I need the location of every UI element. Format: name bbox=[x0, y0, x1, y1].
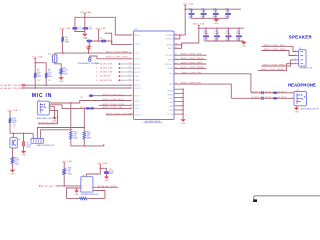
svg-text:18: 18 bbox=[129, 79, 131, 81]
svg-text:MIC2P: MIC2P bbox=[135, 64, 142, 66]
capacitor C11 bbox=[216, 28, 218, 35]
svg-text:C8: C8 bbox=[213, 9, 215, 11]
capacitor C6 bbox=[191, 9, 193, 13]
wire net AZ_NB_MIC_OUT bbox=[93, 186, 118, 188]
svg-text:0402: 0402 bbox=[87, 138, 91, 140]
capacitor C4 bbox=[101, 40, 106, 43]
wire speaker w2 bbox=[261, 51, 296, 56]
capacitor C8 bbox=[215, 9, 217, 13]
svg-text:0402: 0402 bbox=[109, 173, 113, 175]
capacitor C16 bbox=[104, 171, 109, 174]
wire jack pin3 to ground bbox=[50, 107, 54, 117]
wire VCC column (flag to pin) bbox=[184, 6, 186, 35]
svg-text:GND: GND bbox=[214, 23, 219, 25]
resistor R12 bbox=[70, 131, 73, 139]
capacitor C9 bbox=[227, 9, 229, 13]
resistor R16 (series, HP left) bbox=[273, 92, 277, 94]
resistor R13 bbox=[83, 131, 86, 139]
wire net AUDIO_CODEC_DOUT_SPDIF bbox=[106, 114, 130, 116]
ground GND (under C16) bbox=[104, 177, 109, 179]
svg-text:15: 15 bbox=[129, 67, 131, 69]
wire top-left decoupling bus bbox=[75, 17, 132, 35]
wire stem VCC flag to bus bbox=[84, 15, 86, 17]
svg-text:MIC3P: MIC3P bbox=[135, 72, 142, 74]
node junction on DIN wire bbox=[83, 108, 85, 110]
wire AVDD column down to pin net bbox=[182, 28, 199, 43]
svg-text:GND: GND bbox=[169, 102, 174, 104]
svg-text:U2: U2 bbox=[82, 175, 84, 177]
node junction x=179.8 bbox=[179, 34, 181, 36]
svg-text:GND: GND bbox=[294, 111, 299, 113]
svg-text:17: 17 bbox=[129, 75, 131, 77]
ground GND (headphone jack) bbox=[294, 108, 299, 111]
svg-text:1: 1 bbox=[91, 187, 92, 189]
svg-text:0603: 0603 bbox=[236, 39, 240, 41]
svg-text:SDIN: SDIN bbox=[135, 108, 140, 110]
wire VCC amp column bbox=[86, 166, 100, 177]
wire crystal pin to bus bbox=[32, 133, 34, 138]
svg-text:0402: 0402 bbox=[214, 39, 218, 41]
node junction AVDD on bus 2 bbox=[198, 27, 200, 29]
svg-text:0402: 0402 bbox=[64, 74, 68, 76]
svg-text:1%: 1% bbox=[37, 80, 40, 82]
svg-text:0402: 0402 bbox=[48, 76, 52, 78]
svg-text:2: 2 bbox=[82, 188, 83, 190]
svg-text:LRCK: LRCK bbox=[135, 105, 141, 107]
svg-text:2: 2 bbox=[50, 102, 51, 104]
wire speaker w3 bbox=[261, 60, 296, 66]
ground GND (mic jack) bbox=[52, 117, 57, 119]
wire net AUDIO_CODEC_RESET# bbox=[55, 52, 131, 54]
wire R14 to bus bbox=[10, 123, 33, 133]
node junction bus x=13.4 bbox=[13, 132, 15, 134]
svg-text:GND: GND bbox=[169, 98, 174, 100]
svg-text:C3: C3 bbox=[85, 38, 87, 40]
svg-text:1: 1 bbox=[295, 50, 296, 52]
svg-text:C2: C2 bbox=[89, 26, 91, 28]
svg-text:3: 3 bbox=[292, 97, 293, 99]
component D1 (vertical, GPIO net) bbox=[89, 57, 91, 61]
connector J3 (headphone jack) bbox=[294, 92, 307, 106]
svg-text:2.2uF: 2.2uF bbox=[214, 33, 220, 35]
resistor R6 bbox=[60, 68, 63, 74]
svg-text:4: 4 bbox=[295, 62, 296, 64]
wire crystal to bias resistors (upper) bbox=[37, 128, 84, 139]
node junction amp input bbox=[63, 185, 65, 187]
wire pin SPKVDD to VCC column bbox=[174, 34, 185, 36]
ground GND (U2) bbox=[74, 190, 79, 192]
resistor R19 (feedback) bbox=[80, 197, 87, 199]
svg-text:R14: R14 bbox=[12, 118, 15, 120]
capacitor C2 bbox=[83, 27, 88, 30]
svg-text:MIC1N: MIC1N bbox=[135, 88, 142, 90]
svg-text:2: 2 bbox=[295, 54, 296, 56]
svg-text:0402: 0402 bbox=[15, 164, 19, 166]
wire net AUDIO_CODEC_SPKRN bbox=[174, 67, 207, 69]
wire R5 bottom to R6 bbox=[55, 62, 62, 68]
svg-text:0402: 0402 bbox=[226, 39, 230, 41]
svg-text:C9: C9 bbox=[225, 9, 227, 11]
wire C5 to ground bbox=[23, 147, 25, 151]
wire cap row 2 bbox=[87, 41, 132, 44]
connector J1 (speaker) bbox=[299, 50, 306, 66]
svg-text:GND: GND bbox=[181, 123, 186, 125]
wire headphone line 1 bbox=[251, 92, 294, 94]
capacitor C12 bbox=[228, 28, 230, 35]
wire cap bottoms to ground bbox=[75, 30, 85, 34]
resistor R5 (box style) bbox=[53, 55, 57, 62]
svg-text:41: 41 bbox=[175, 83, 177, 85]
wire column to R13 bbox=[83, 108, 85, 131]
node junction x=181.6 bbox=[181, 44, 183, 46]
svg-text:4.7uF: 4.7uF bbox=[26, 145, 32, 147]
wire net AUDIO_CODEC_HPL (to headphone) bbox=[174, 74, 251, 93]
svg-text:2.2uF: 2.2uF bbox=[189, 11, 195, 13]
power flag AVDD stem bbox=[197, 25, 200, 27]
capacitor C10 bbox=[205, 28, 207, 35]
svg-text:R6: R6 bbox=[64, 67, 66, 69]
svg-text:3: 3 bbox=[82, 179, 83, 181]
svg-text:SPLN: SPLN bbox=[168, 59, 174, 61]
wire capacitor bus 1 (bottom) bbox=[192, 17, 229, 19]
wire ground bus right of U1 bbox=[174, 88, 183, 90]
transistor Q1 bbox=[10, 138, 17, 148]
wire J1 pin stubs bbox=[297, 52, 299, 64]
ground GND (cap bank 1) bbox=[215, 17, 217, 20]
node junction x=84.3 y=127.5 bbox=[83, 127, 85, 129]
svg-text:48: 48 bbox=[175, 67, 177, 69]
svg-text:LINE: LINE bbox=[135, 76, 140, 78]
capacitor C14 (series, HP left) bbox=[262, 91, 264, 94]
node junction R8/line1 bbox=[45, 84, 47, 86]
svg-text:5%: 5% bbox=[87, 136, 90, 138]
capacitor C5 (red body) bbox=[23, 133, 25, 141]
off-page connector (line 1) bbox=[21, 84, 25, 86]
svg-text:GND: GND bbox=[52, 121, 57, 123]
svg-text:100K: 100K bbox=[12, 120, 17, 122]
svg-text:C13: C13 bbox=[236, 31, 239, 33]
svg-text:J3: J3 bbox=[297, 90, 299, 92]
wire flag stem bbox=[34, 60, 36, 63]
svg-text:R8: R8 bbox=[48, 70, 50, 72]
node junction on BCLK wire bbox=[70, 102, 72, 104]
wire net AZ_NB_MIC_CON_P bbox=[25, 84, 130, 86]
wire J3 to ground bbox=[296, 106, 298, 108]
capacitor C15 (series, HP right) bbox=[262, 97, 264, 100]
wire branch to C16 bbox=[100, 168, 106, 171]
wire amp input net bbox=[56, 185, 81, 187]
capacitor C13 bbox=[238, 28, 240, 35]
svg-text:0402: 0402 bbox=[12, 122, 16, 124]
svg-text:C10: C10 bbox=[203, 31, 206, 33]
svg-text:GND: GND bbox=[169, 110, 174, 112]
svg-text:GND: GND bbox=[21, 155, 26, 157]
node junction amp VCC bbox=[99, 167, 101, 169]
resistor R15 bbox=[11, 157, 14, 164]
ground GND (under R15) bbox=[10, 170, 15, 173]
wire flag to R14 bbox=[9, 113, 11, 118]
resistor R8 bbox=[45, 73, 48, 78]
svg-text:GND: GND bbox=[10, 174, 15, 176]
wire net AZ_NB_MIC_CON_N bbox=[23, 87, 130, 89]
op-amp U1 (audio codec ALC5621) bbox=[134, 31, 175, 120]
svg-text:0402: 0402 bbox=[65, 41, 69, 43]
resistor R17 (series, HP right) bbox=[273, 98, 277, 100]
wire flag stem to RESET net bbox=[88, 50, 90, 53]
wire net AUDIO_CODEC_BCLK (from mic jack) bbox=[50, 101, 130, 104]
svg-text:HEADPHONE: HEADPHONE bbox=[288, 83, 316, 88]
wire R15 to ground bbox=[12, 164, 14, 170]
svg-text:0402: 0402 bbox=[74, 138, 78, 140]
wire step to pin SPKVD2 bbox=[174, 35, 180, 39]
node junction mic bias bbox=[34, 62, 36, 64]
op-amp U2 (mic buffer) bbox=[81, 177, 93, 192]
wire small jog segment bbox=[105, 33, 112, 44]
svg-text:40: 40 bbox=[175, 72, 177, 74]
wire jack pin stubs bbox=[49, 103, 50, 110]
wire net AUDIO_CODEC_HPR (to headphone) bbox=[174, 84, 231, 98]
svg-text:2.2uF: 2.2uF bbox=[201, 11, 207, 13]
svg-text:45: 45 bbox=[175, 54, 177, 56]
pin leads U1 left edge bbox=[131, 34, 133, 36]
svg-text:R18: R18 bbox=[68, 167, 71, 169]
wire cap C1 stub bbox=[74, 17, 76, 27]
svg-text:0402: 0402 bbox=[68, 174, 72, 176]
svg-text:BCLK: BCLK bbox=[135, 100, 141, 102]
svg-text:C6: C6 bbox=[189, 9, 191, 11]
wire R5 top to RESET net bbox=[54, 53, 56, 55]
wire resistor bottoms bus bbox=[71, 139, 104, 146]
wire net AUDIO_CODEC_LRCLK bbox=[99, 104, 130, 106]
svg-text:SPLOUT: SPLOUT bbox=[165, 55, 173, 57]
svg-text:C16: C16 bbox=[109, 169, 112, 171]
wire C16 to ground bbox=[106, 174, 108, 177]
svg-text:C1: C1 bbox=[78, 26, 80, 28]
svg-text:5%: 5% bbox=[48, 74, 51, 76]
wire R8 column bbox=[45, 63, 47, 73]
wire capacitor bus 1 (top) bbox=[185, 8, 241, 10]
wire capacitor bus 2 (top) bbox=[199, 27, 244, 29]
node junction RESET x=63 bbox=[62, 52, 64, 54]
svg-text:2.2uF: 2.2uF bbox=[109, 171, 115, 173]
svg-text:0402: 0402 bbox=[37, 76, 41, 78]
svg-text:SPKVDD: SPKVDD bbox=[165, 35, 173, 37]
node junction x=70.8 y=129.8 bbox=[70, 129, 72, 131]
capacitor C1 bbox=[72, 27, 77, 30]
wire R7 to MIC line 2 bbox=[34, 78, 36, 88]
svg-text:HPR: HPR bbox=[169, 84, 174, 86]
svg-text:HPL: HPL bbox=[169, 74, 173, 76]
svg-text:2.2uF: 2.2uF bbox=[203, 33, 209, 35]
resistor R18 bbox=[63, 169, 66, 175]
node junction bus x=84.3 bbox=[83, 145, 85, 147]
svg-text:J2: J2 bbox=[38, 100, 40, 102]
wire column to R12 bbox=[70, 103, 72, 131]
wire net AUDIO_CODEC_DIN (from mic jack) bbox=[50, 105, 130, 109]
svg-text:5%: 5% bbox=[68, 172, 71, 174]
capacitor C3 bbox=[87, 40, 92, 43]
svg-text:SPRN: SPRN bbox=[168, 68, 174, 70]
svg-text:0.1uF: 0.1uF bbox=[78, 29, 84, 31]
ground GND (cap bank 2) bbox=[243, 40, 245, 43]
resistor R4 (pull-up) bbox=[61, 37, 64, 42]
node junction R7/line2 bbox=[34, 87, 36, 89]
svg-text:R12: R12 bbox=[74, 131, 77, 133]
svg-text:2: 2 bbox=[292, 92, 293, 94]
wire flag to R18 bbox=[63, 164, 65, 169]
wire net AUDIO_CODEC_SPKL bbox=[174, 54, 207, 56]
resistor R14 bbox=[9, 118, 12, 123]
svg-text:RECS: RECS bbox=[135, 80, 141, 82]
wire speaker w4 bbox=[258, 64, 297, 71]
svg-text:46: 46 bbox=[175, 58, 177, 60]
svg-text:GND: GND bbox=[169, 106, 174, 108]
wire R8 to MIC line 1 bbox=[45, 78, 47, 85]
svg-text:14: 14 bbox=[129, 63, 131, 65]
wire net AUDIO_CODEC_MCLK bbox=[93, 95, 130, 97]
svg-text:DVDD: DVDD bbox=[135, 44, 141, 46]
svg-text:SPROUT: SPROUT bbox=[165, 64, 174, 66]
svg-text:Q1: Q1 bbox=[18, 139, 20, 141]
svg-text:MIC IN: MIC IN bbox=[32, 93, 52, 99]
svg-text:MIC2N: MIC2N bbox=[135, 68, 142, 70]
svg-text:C11: C11 bbox=[214, 31, 217, 33]
svg-text:C12: C12 bbox=[226, 31, 229, 33]
wire feedback bottom bbox=[66, 188, 105, 198]
svg-text:2.2uF: 2.2uF bbox=[226, 33, 232, 35]
wire flag to resistor R4 bbox=[62, 31, 64, 37]
wire bias branch bbox=[35, 62, 46, 64]
wire cap C2 stub bbox=[84, 17, 86, 27]
wire pin AVDD2 bbox=[174, 43, 182, 45]
wire bus to transistor Q1 bbox=[12, 133, 14, 137]
svg-text:GPIO2: GPIO2 bbox=[135, 59, 141, 61]
svg-text:5%: 5% bbox=[74, 136, 77, 138]
svg-text:47: 47 bbox=[175, 63, 177, 65]
wire Q1 to R15 bbox=[12, 148, 14, 157]
off-page connector (line 2) bbox=[22, 87, 24, 89]
svg-text:5%: 5% bbox=[37, 74, 40, 76]
node junction cap row at x=98.6 bbox=[98, 40, 100, 42]
wire U2 pin2 to ground bbox=[77, 188, 81, 190]
wire step to pin AVD2 bbox=[174, 45, 182, 49]
svg-text:R5: R5 bbox=[48, 54, 50, 56]
svg-text:5%: 5% bbox=[64, 72, 67, 74]
wire net AUDIO_CODEC_GPIO2 bbox=[90, 56, 130, 59]
wire speaker w1 bbox=[261, 46, 296, 51]
wire jack pin5 detect bbox=[38, 110, 57, 123]
wire net AUDIO_CODEC_SPKR bbox=[174, 63, 207, 65]
ground GND (under C3) bbox=[88, 42, 90, 45]
connector J2 (mic jack) bbox=[37, 101, 49, 115]
svg-text:16: 16 bbox=[129, 71, 131, 73]
resistor R7 bbox=[34, 73, 37, 78]
svg-text:SDOUT: SDOUT bbox=[135, 115, 142, 117]
svg-text:C4: C4 bbox=[100, 38, 102, 40]
svg-text:R7: R7 bbox=[37, 70, 39, 72]
ground GND (U1 right) bbox=[180, 119, 186, 122]
capacitor C7 bbox=[203, 9, 205, 13]
wire crystal to bias resistors (lower) bbox=[41, 130, 71, 139]
svg-text:3: 3 bbox=[295, 59, 296, 61]
svg-text:1.2M: 1.2M bbox=[15, 159, 20, 161]
svg-text:SPKVD2: SPKVD2 bbox=[166, 39, 173, 41]
svg-text:Q1: Q1 bbox=[13, 125, 15, 127]
svg-text:SPEAKER: SPEAKER bbox=[289, 34, 313, 39]
crystal Y1 bbox=[31, 139, 44, 144]
svg-text:C5: C5 bbox=[26, 142, 28, 144]
svg-text:R15: R15 bbox=[15, 157, 18, 159]
svg-text:MCLK: MCLK bbox=[135, 96, 141, 98]
svg-text:1%: 1% bbox=[48, 80, 51, 82]
ground GND (under C5) bbox=[21, 151, 26, 154]
wire capacitor bus 2 (bottom) bbox=[206, 40, 244, 42]
ground GND (under C2) bbox=[82, 34, 87, 37]
wire R18 to amp input bbox=[63, 175, 65, 186]
wire VCC_1.8A stem to cap row bbox=[98, 31, 100, 41]
node junction on cap bus 1 bbox=[184, 8, 186, 10]
wire R7 column bbox=[34, 63, 36, 73]
svg-text:5%: 5% bbox=[15, 162, 18, 164]
svg-text:R13: R13 bbox=[87, 131, 90, 133]
resistor R11 (series) bbox=[90, 108, 93, 110]
svg-text:SGM8903XN5G/TR: SGM8903XN5G/TR bbox=[81, 194, 99, 196]
svg-text:R4: R4 bbox=[65, 37, 67, 39]
svg-text:4: 4 bbox=[82, 186, 83, 188]
svg-text:GND: GND bbox=[74, 194, 79, 196]
wire net AUDIO_CODEC_SPKLN bbox=[174, 59, 207, 61]
ground AGND (under R6) bbox=[59, 77, 64, 80]
title block (bottom right) bbox=[254, 196, 320, 205]
svg-text:GND: GND bbox=[104, 180, 109, 182]
node junction bus x=23.5 bbox=[23, 132, 25, 134]
svg-text:GND: GND bbox=[87, 49, 92, 51]
node junction on bus at x=84.8 bbox=[84, 16, 86, 18]
svg-text:C7: C7 bbox=[201, 9, 203, 11]
wire headphone line 2 bbox=[231, 97, 294, 99]
svg-text:GND: GND bbox=[242, 46, 247, 48]
svg-text:GND: GND bbox=[59, 81, 64, 83]
node junction RESET x=88.5 bbox=[88, 52, 90, 54]
svg-text:42: 42 bbox=[175, 34, 177, 36]
svg-text:MIC1P: MIC1P bbox=[135, 85, 142, 87]
wire R6 to ground bbox=[60, 74, 62, 77]
svg-text:J1: J1 bbox=[300, 48, 302, 50]
wire R4 to RESET net bbox=[62, 42, 64, 53]
svg-text:0402: 0402 bbox=[203, 39, 207, 41]
